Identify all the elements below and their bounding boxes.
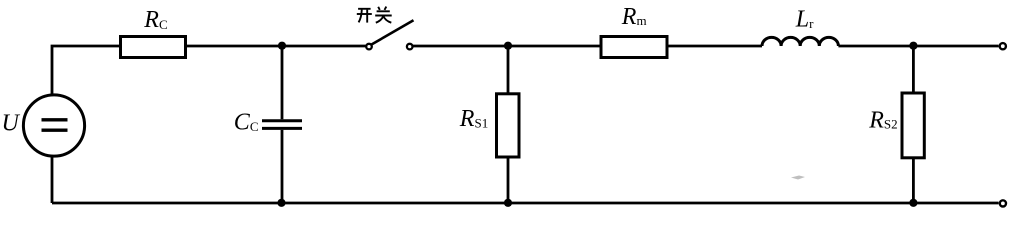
label U (2, 111, 21, 137)
svg-text:RS1: RS1 (459, 106, 488, 132)
faint smudge artifact near bottom right (791, 176, 805, 180)
svg-text:Lr: Lr (795, 6, 814, 32)
inductor L_r (762, 37, 838, 46)
svg-text:CC: CC (234, 109, 259, 135)
label R_C (143, 7, 167, 33)
junction node: bottom of R_S1 (504, 199, 512, 207)
terminal: top right output (1000, 43, 1006, 49)
resistor R_C (121, 37, 186, 58)
wire: R_C to switch (185, 45, 366, 48)
junction node: top of R_S1 (504, 42, 512, 50)
voltage source U (DC source circle with bars) (23, 95, 84, 156)
label R_S2 (868, 107, 897, 133)
label R_S1 (459, 106, 488, 132)
resistor R_S2 with leads (902, 46, 924, 203)
switch 开关 (366, 20, 413, 49)
wire: source bottom to bottom rail (51, 157, 54, 203)
label 开关 (drawn strokes, bold CJK) (357, 7, 392, 23)
wire: L_r to top-right terminal (through node above R_S2) (838, 45, 998, 48)
svg-text:RS2: RS2 (868, 107, 897, 133)
wire: R_m to L_r (667, 45, 762, 48)
svg-text:RC: RC (143, 7, 167, 33)
resistor R_S1 with leads (497, 46, 520, 203)
label C_C (234, 109, 259, 135)
junction node: bottom of C_C (277, 199, 285, 207)
label L_r (795, 6, 814, 32)
wire: top-left from source top up and right to R_C (52, 46, 121, 94)
terminal: bottom right output (1000, 200, 1006, 206)
svg-text:Rm: Rm (621, 4, 647, 30)
svg-text:U: U (2, 111, 21, 137)
junction node: top of R_S2 (909, 42, 917, 50)
junction node: top of C_C (278, 42, 286, 50)
junction node: bottom of R_S2 (909, 199, 917, 207)
wire: switch to R_m (through node above R_S1) (413, 45, 601, 48)
capacitor C_C (262, 45, 302, 203)
label R_m (621, 4, 647, 30)
resistor R_m (601, 37, 667, 58)
wire: bottom rail (52, 202, 999, 205)
